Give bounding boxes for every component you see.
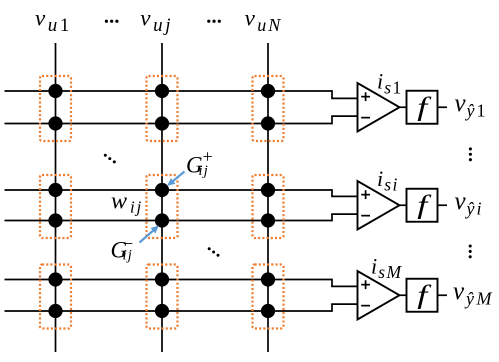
wire row M+ (horizontal) xyxy=(5,279,333,281)
svg-text:uj: uj xyxy=(153,15,173,36)
activation function block f2 xyxy=(407,189,438,222)
memristor G- cell col 2 group 1 xyxy=(155,116,169,130)
vertical ellipsis between outputs 1 and i xyxy=(469,147,472,161)
svg-text:i: i xyxy=(377,69,383,94)
activation function label f (block 2) xyxy=(417,190,432,219)
wire jog row 1+ to op-amp noninverting input xyxy=(331,90,357,98)
memristor G+ cell col 3 group M xyxy=(261,272,275,286)
memristor G+ cell col 1 group 1 xyxy=(48,84,62,98)
memristor G+ cell col 3 group 1 xyxy=(261,84,275,98)
synapse pair outline (dashed box) col 2 group M xyxy=(147,265,178,329)
synapse pair outline (dashed box) col 3 group 1 xyxy=(253,76,284,141)
activation function block f3 xyxy=(407,279,438,312)
op-amp U1 (difference amplifier) xyxy=(358,83,400,132)
wire f box 1 output xyxy=(438,106,448,108)
output label v_yhat1 xyxy=(455,90,488,121)
wire row M- (horizontal) xyxy=(5,310,333,312)
wire op-amp U1 output to f box xyxy=(400,106,407,108)
wire jog row i- to op-amp inverting input xyxy=(331,214,357,221)
node label v_uN xyxy=(245,5,283,35)
svg-text:v: v xyxy=(455,90,467,117)
wire row 1- (horizontal) xyxy=(5,123,333,125)
arrow from G_ij+ label to G+ memristor xyxy=(167,172,185,187)
wire jog row 1- to op-amp inverting input xyxy=(331,116,357,124)
op-amp U3 inverting input - sign xyxy=(361,305,370,307)
svg-text:u1: u1 xyxy=(48,15,72,36)
wire jog row M- to op-amp inverting input xyxy=(331,304,357,312)
wire op-amp U2 output to f box xyxy=(400,204,407,206)
op-amp U3 noninverting input + sign xyxy=(361,280,370,289)
node label v_uj xyxy=(140,5,173,36)
current label i_sM xyxy=(371,254,403,282)
wire row i+ (horizontal) xyxy=(5,189,333,191)
conductance label G_ij+ xyxy=(186,147,213,179)
svg-text:i: i xyxy=(377,166,383,191)
op-amp U1 noninverting input + sign xyxy=(361,92,370,101)
wire row i- (horizontal) xyxy=(5,220,333,222)
diagonal ellipsis between row groups 1 and i xyxy=(104,154,116,164)
svg-text:sM: sM xyxy=(378,262,402,282)
memristor G- cell col 3 group 1 xyxy=(261,116,275,130)
synapse pair outline (dashed box) col 2 group 1 xyxy=(147,76,178,141)
svg-text:v: v xyxy=(455,188,467,215)
memristor G+ cell col 2 group i xyxy=(155,183,169,197)
diagonal ellipsis between column j and N (bottom) xyxy=(208,247,220,257)
node label v_u1 xyxy=(35,5,72,36)
svg-text:ŷi: ŷi xyxy=(465,198,484,218)
activation function label f (block 1) xyxy=(417,92,432,121)
arrow from G_ij- label to G- memristor xyxy=(140,226,160,243)
current label i_s1 xyxy=(377,69,403,98)
horizontal ellipsis between v_uj and v_uN xyxy=(207,20,221,23)
svg-text:si: si xyxy=(384,174,398,194)
memristor G- cell col 1 group 1 xyxy=(48,116,62,130)
svg-text:−: − xyxy=(123,234,133,254)
conductance label G_ij- xyxy=(111,234,134,264)
wire jog row M+ to op-amp noninverting input xyxy=(331,279,357,287)
synapse pair outline (dashed box) col 2 group i xyxy=(147,175,178,238)
memristor G+ cell col 1 group i xyxy=(48,183,62,197)
memristor G+ cell col 1 group M xyxy=(48,272,62,286)
svg-text:i: i xyxy=(371,254,377,279)
output label v_yhatM xyxy=(453,278,494,309)
horizontal ellipsis between v_u1 and v_uj xyxy=(105,20,119,23)
output label v_yhati xyxy=(455,188,484,219)
svg-text:uN: uN xyxy=(257,15,282,35)
synapse pair outline (dashed box) col 3 group M xyxy=(253,265,284,329)
op-amp U2 (difference amplifier) xyxy=(358,181,400,230)
wire op-amp U3 output to f box xyxy=(400,294,407,296)
op-amp U2 inverting input - sign xyxy=(361,215,370,217)
wire v_uN column (vertical) xyxy=(267,43,269,352)
activation function block f1 xyxy=(407,91,438,124)
wire jog row i+ to op-amp noninverting input xyxy=(331,189,357,196)
svg-text:s1: s1 xyxy=(384,77,402,97)
svg-text:+: + xyxy=(203,147,213,167)
svg-text:v: v xyxy=(140,5,151,30)
svg-text:v: v xyxy=(245,5,256,30)
svg-text:v: v xyxy=(453,278,465,305)
op-amp U3 (difference amplifier) xyxy=(358,271,400,320)
wire v_uj column (vertical) xyxy=(161,43,163,352)
memristor G- cell col 3 group M xyxy=(261,304,275,318)
memristor G- cell col 3 group i xyxy=(261,213,275,227)
synapse pair outline (dashed box) col 1 group i xyxy=(40,175,71,238)
memristor G+ cell col 2 group 1 xyxy=(155,84,169,98)
op-amp U2 noninverting input + sign xyxy=(361,190,370,199)
memristor G- cell col 1 group i xyxy=(48,213,62,227)
synapse pair outline (dashed box) col 1 group M xyxy=(40,265,71,329)
memristor G+ cell col 2 group M xyxy=(155,272,169,286)
svg-text:ŷM: ŷM xyxy=(464,288,494,308)
activation function label f (block 3) xyxy=(417,280,432,309)
svg-text:ŷ1: ŷ1 xyxy=(465,100,488,120)
svg-text:w: w xyxy=(111,189,127,215)
memristor G- cell col 2 group M xyxy=(155,304,169,318)
svg-text:v: v xyxy=(35,5,46,30)
vertical ellipsis between outputs i and M xyxy=(469,244,472,258)
memristor G- cell col 1 group M xyxy=(48,304,62,318)
svg-text:ij: ij xyxy=(130,198,143,217)
wire f box 3 output xyxy=(438,294,448,296)
memristor G+ cell col 3 group i xyxy=(261,183,275,197)
weight label w_ij xyxy=(111,189,143,217)
wire v_u1 column (vertical) xyxy=(55,43,57,352)
wire row 1+ (horizontal) xyxy=(5,90,333,92)
memristor G- cell col 2 group i xyxy=(155,213,169,227)
synapse pair outline (dashed box) col 1 group 1 xyxy=(40,76,71,141)
op-amp U1 inverting input - sign xyxy=(361,117,370,119)
wire f box 2 output xyxy=(438,204,448,206)
current label i_si xyxy=(377,166,399,194)
synapse pair outline (dashed box) col 3 group i xyxy=(253,175,284,238)
